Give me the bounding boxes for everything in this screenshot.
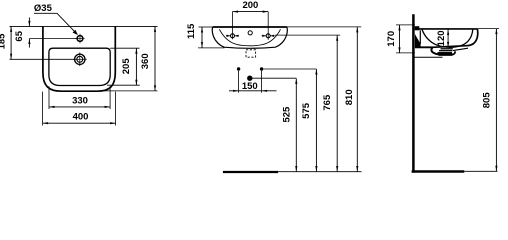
tap hole circle <box>77 36 83 42</box>
svg-text:330: 330 <box>72 95 88 106</box>
wire: 400 extension lines <box>42 92 44 126</box>
basin profile top edge <box>213 26 287 28</box>
small overflow circle <box>248 31 252 35</box>
svg-text:525: 525 <box>281 106 292 123</box>
drain boss lines <box>441 48 453 50</box>
washbasin outer body (front view) <box>43 26 115 91</box>
dimension 205 (bowl top to bottom) <box>135 48 137 85</box>
dimension 765 (fixing hole height) <box>336 35 338 171</box>
wire: basin bottom extension to 115 dimension <box>198 47 225 49</box>
wall line <box>412 14 415 172</box>
dimension 525 (supply height) <box>295 78 297 171</box>
wire: tap-hole level extension line <box>29 38 76 40</box>
dimension 65 (rim to tap hole) <box>28 18 30 27</box>
dimension 120 (bowl depth) <box>447 30 449 48</box>
wire: top rim extension to 810 dimension <box>287 26 361 28</box>
svg-text:115: 115 <box>186 23 197 39</box>
svg-text:170: 170 <box>386 31 397 47</box>
svg-text:360: 360 <box>140 53 151 69</box>
wire: fixing hole level line to 765 dimension <box>275 34 340 36</box>
wire: bowl-top extension to 205 dimension <box>110 47 139 49</box>
floor line (right view, thick part) <box>412 170 465 172</box>
fixing hole right <box>262 35 275 37</box>
wire: 170 top extension line <box>396 24 415 26</box>
dimension 170 <box>399 25 401 53</box>
wire: leader line to tap hole <box>34 13 77 34</box>
fixing hole left <box>226 35 239 37</box>
wire: rim top line with left and right dimension extensions <box>10 25 158 27</box>
floor line (middle view, thick part) <box>223 171 278 173</box>
dimension 575 (fixing dot height) <box>315 69 317 172</box>
wire: under-apron diagonal line <box>453 48 468 50</box>
underside step curve <box>431 47 440 54</box>
mounting bracket on wall <box>415 26 420 30</box>
wire: floor line thin extension under dimension arrows <box>278 171 362 173</box>
water supply dot <box>247 76 252 81</box>
dimension 115 (basin depth) <box>201 27 203 48</box>
inner bowl arc <box>219 29 280 46</box>
bottom lip line to wall <box>414 56 443 58</box>
dashed drain box <box>246 50 256 57</box>
section cut dark wedge at wall <box>415 34 421 47</box>
inner bowl outline <box>49 48 110 85</box>
dimension 185 (rim to overflow) <box>10 26 12 59</box>
overflow hole concentric circles <box>75 54 85 64</box>
svg-text:200: 200 <box>242 0 258 11</box>
wire: bowl-bottom extension to 205 dimension <box>107 84 140 86</box>
dimension 810 (rim height) <box>356 27 358 172</box>
wire: basin bottom extension to 360 dimension <box>104 90 158 92</box>
wire: overflow level extension line <box>10 58 75 60</box>
wall fixing dot left <box>237 67 240 70</box>
basin deck top edge <box>415 28 478 30</box>
wire: deck extension to 805 dimension <box>477 28 499 30</box>
dimension 360 (overall height) <box>154 26 156 91</box>
wire: 150 extension lines <box>238 71 240 93</box>
wire: floor thin extension under 805 arrow <box>464 170 497 172</box>
dimension 200 (fixing hole spacing) <box>233 11 269 13</box>
wire: 170 bottom extension line <box>396 52 415 54</box>
svg-text:805: 805 <box>482 92 493 109</box>
svg-text:120: 120 <box>436 30 447 46</box>
svg-text:575: 575 <box>301 102 312 119</box>
svg-text:65: 65 <box>14 30 25 41</box>
dimension 400 (overall width) <box>43 122 116 124</box>
wire: fixing dot level line to 575 dimension <box>263 68 316 70</box>
svg-text:400: 400 <box>73 112 89 123</box>
wall fixing dot right <box>260 67 263 70</box>
svg-text:205: 205 <box>121 58 132 75</box>
wire: top rim extension to 115 dimension <box>199 26 213 28</box>
basin underside line to wall <box>415 46 433 48</box>
foot bottom <box>439 53 453 56</box>
wire: supply dot level line to 525 dimension <box>252 77 296 79</box>
wire: fixing hole centre lines from 200 dimension <box>232 12 234 40</box>
svg-text:810: 810 <box>344 89 355 105</box>
svg-text:185: 185 <box>0 33 8 50</box>
svg-text:765: 765 <box>322 94 333 111</box>
wire: back bowl edge line <box>419 30 421 44</box>
dimension 150 (supply spacing) <box>229 90 277 92</box>
basin profile outline <box>212 27 287 48</box>
basin side outer front face <box>433 29 478 47</box>
svg-text:Ø35: Ø35 <box>34 3 53 14</box>
wire: 330 extension lines <box>48 86 50 109</box>
dimension 805 (rim height side view) <box>495 29 497 172</box>
dimension 330 (inner bowl width) <box>49 106 110 108</box>
bowl interior profile <box>422 29 473 47</box>
svg-text:150: 150 <box>242 81 258 92</box>
